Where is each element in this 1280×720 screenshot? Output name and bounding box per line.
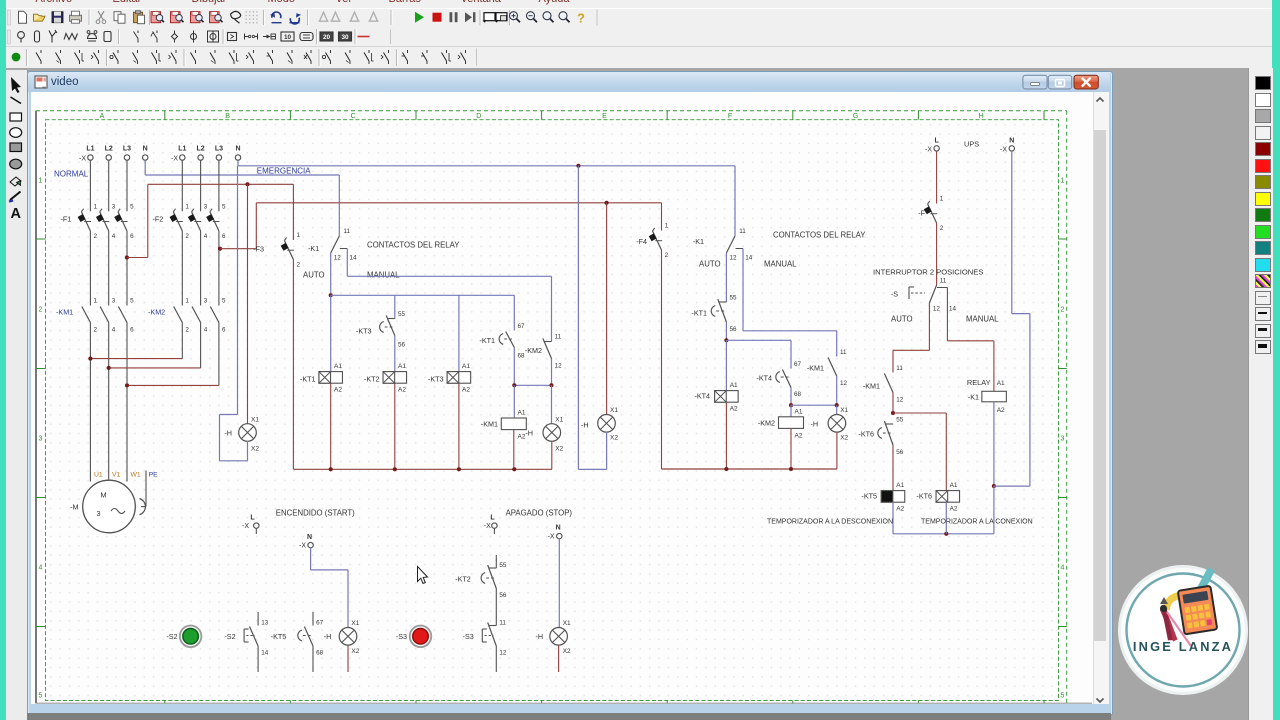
label -KM1 bbox=[56, 308, 73, 317]
junction mid rail KT4 bbox=[724, 467, 728, 471]
svg-text:13: 13 bbox=[261, 620, 269, 627]
svg-text:N: N bbox=[307, 534, 312, 541]
junction node F bbox=[992, 484, 996, 488]
svg-text:11: 11 bbox=[344, 228, 351, 235]
contactor -KM2 pole 2 bbox=[192, 298, 208, 334]
junction rail R2 lamp feed bbox=[605, 201, 609, 205]
wire -KM2/2 drop bbox=[181, 323, 183, 359]
wire lamp X2 to bottom rail bbox=[551, 441, 553, 470]
wire L1 normal to -F1 bbox=[89, 160, 91, 211]
svg-text:-K1: -K1 bbox=[308, 244, 319, 253]
wire -F1 to -KM1 at x=90.4 bbox=[89, 231, 91, 306]
terminal -X N (start) bbox=[299, 534, 313, 549]
breaker contact -F (UPS) bbox=[924, 196, 944, 233]
timer contact -KT6 (NC, 55-56) bbox=[878, 417, 904, 457]
wire -KM1 ups to node E bbox=[892, 393, 894, 414]
timer contact -KT3 (NC, 55-56) bbox=[380, 311, 406, 349]
svg-text:-KT6: -KT6 bbox=[916, 492, 932, 501]
svg-text:X1: X1 bbox=[251, 416, 259, 423]
wire node C to -KT4 contact bbox=[726, 340, 791, 368]
label -KT3 (contact) bbox=[356, 327, 372, 336]
breaker -F2 pole 3 bbox=[206, 204, 226, 241]
wire link L2 km1-km2 bbox=[109, 367, 201, 369]
label AUTO (left) bbox=[303, 271, 325, 280]
svg-text:?: ? bbox=[577, 11, 585, 26]
junction bottom rail KT2 bbox=[393, 467, 397, 471]
relay coil -K1 bbox=[968, 380, 1007, 414]
wire manual branch (left) bbox=[347, 249, 551, 342]
wire -F3/2 to bottom rail bbox=[292, 260, 294, 470]
svg-text:1: 1 bbox=[39, 178, 43, 185]
svg-text:A2: A2 bbox=[462, 387, 470, 394]
svg-text:-KT4: -KT4 bbox=[694, 392, 710, 401]
aux contact -KM2 (NC, 11-12) bbox=[543, 334, 562, 370]
label -KM2 bbox=[148, 308, 165, 317]
svg-text:-KT2: -KT2 bbox=[455, 575, 471, 584]
wire -KM1/6 to motor W1 bbox=[126, 323, 128, 482]
wire relay A2 to node F bbox=[993, 402, 995, 486]
wire -KM1 coil A2 to rail bbox=[513, 430, 515, 470]
grid dots bbox=[46, 120, 1058, 700]
svg-text:X2: X2 bbox=[610, 435, 618, 442]
wire lamp -H2 return bbox=[578, 166, 606, 470]
wire node A to -KM1 coil bbox=[513, 385, 515, 418]
svg-text:2: 2 bbox=[185, 327, 189, 334]
label -KT2 (contact) bbox=[455, 575, 471, 584]
pushbutton indicator -S2 (green) bbox=[180, 626, 202, 648]
wire -F2/6 to -KM2 with tap bbox=[218, 231, 220, 306]
svg-text:11: 11 bbox=[555, 334, 562, 341]
svg-text:3: 3 bbox=[112, 298, 116, 305]
timer contact -KT5 (NO, 67-68) bbox=[298, 612, 324, 672]
wire auto rail to -KT3 contact bbox=[394, 295, 396, 318]
junction mid rail KM2 bbox=[789, 467, 793, 471]
wire -F4/2 to mid rail bbox=[661, 250, 663, 469]
wire -KT4 coil A2 to mid rail bbox=[725, 402, 727, 469]
timer contact -KT1 (NO, 67-68) bbox=[499, 323, 525, 360]
svg-text:11: 11 bbox=[739, 228, 746, 235]
svg-text:-X: -X bbox=[1000, 147, 1007, 154]
wire -KT3/56 to -KT2 coil bbox=[394, 336, 396, 372]
svg-text:3: 3 bbox=[97, 509, 101, 518]
svg-text:2: 2 bbox=[185, 233, 189, 240]
svg-text:4: 4 bbox=[204, 327, 208, 334]
wire node D2 to lamp -H4 bbox=[836, 405, 838, 414]
wire L3 normal to -F1 bbox=[126, 160, 128, 211]
wire -F2/2 to -KM2 bbox=[181, 231, 183, 306]
svg-text:-H: -H bbox=[811, 420, 819, 429]
svg-text:4: 4 bbox=[112, 327, 116, 334]
svg-text:68: 68 bbox=[316, 650, 324, 657]
label -F3 bbox=[253, 245, 264, 254]
pushbutton contact -S2 (NO, 13-14) bbox=[244, 612, 269, 672]
svg-text:5: 5 bbox=[130, 204, 134, 211]
wire bottom rail (left section) bbox=[293, 468, 552, 470]
svg-text:14: 14 bbox=[949, 306, 957, 313]
svg-text:-S2: -S2 bbox=[224, 632, 235, 641]
svg-text:L2: L2 bbox=[197, 146, 205, 153]
svg-text:4: 4 bbox=[112, 233, 116, 240]
svg-text:L1: L1 bbox=[86, 146, 94, 153]
svg-text:ENCENDIDO (START): ENCENDIDO (START) bbox=[276, 509, 355, 518]
svg-text:-S3: -S3 bbox=[463, 632, 474, 641]
wire N stop to lamp bbox=[558, 539, 560, 628]
svg-text:5: 5 bbox=[222, 204, 226, 211]
svg-text:-X: -X bbox=[242, 523, 249, 530]
wire L3 emergencia to -F2 bbox=[218, 160, 220, 211]
INGE LANZA logo watermark bbox=[1118, 565, 1248, 695]
timer coil -KT4 bbox=[694, 382, 738, 413]
svg-text:5: 5 bbox=[130, 298, 134, 305]
label -S2 (contact) bbox=[224, 632, 235, 641]
svg-text:-X: -X bbox=[171, 155, 178, 162]
svg-text:12: 12 bbox=[840, 380, 848, 387]
wire L1 emergencia to -F2 bbox=[181, 160, 183, 211]
contactor -KM1 pole 3 bbox=[118, 298, 134, 334]
svg-text:3: 3 bbox=[204, 204, 208, 211]
svg-text:A2: A2 bbox=[896, 506, 904, 513]
wire N normal rail bbox=[145, 160, 339, 175]
wire -KM2/4 drop bbox=[200, 323, 202, 368]
svg-text:3: 3 bbox=[1061, 436, 1065, 443]
junction node A bbox=[512, 383, 516, 387]
svg-text:UPS: UPS bbox=[964, 140, 979, 149]
wire -KT1b/56 to node C bbox=[725, 322, 727, 340]
wire auto rail (left section) bbox=[331, 294, 515, 296]
wire L2 emergencia to -F2 bbox=[200, 160, 202, 211]
label -KM2 (aux) bbox=[525, 346, 542, 355]
contactor -KM1 pole 2 bbox=[100, 298, 116, 334]
contactor -KM1 pole 1 bbox=[82, 298, 98, 334]
svg-text:CONTACTOS DEL RELAY: CONTACTOS DEL RELAY bbox=[367, 241, 460, 250]
svg-text:A1: A1 bbox=[997, 380, 1005, 387]
timer coil -KT6 bbox=[916, 482, 959, 513]
svg-text:-KT3: -KT3 bbox=[356, 327, 372, 336]
svg-text:MANUAL: MANUAL bbox=[367, 271, 400, 280]
left tool palette bbox=[6, 70, 28, 720]
svg-text:3: 3 bbox=[112, 204, 116, 211]
svg-text:INTERRUPTOR 2 POSICIONES: INTERRUPTOR 2 POSICIONES bbox=[873, 268, 983, 277]
label CONTACTOS DEL RELAY (right) bbox=[773, 231, 866, 240]
svg-text:67: 67 bbox=[518, 323, 526, 330]
label MANUAL (right-mid) bbox=[764, 260, 797, 269]
wire -KT3 coil A2 to rail bbox=[458, 383, 460, 469]
svg-text:A2: A2 bbox=[950, 506, 958, 513]
label -KT1 (contact) bbox=[479, 336, 495, 345]
svg-text:-KM1: -KM1 bbox=[863, 382, 880, 391]
label CONTACTOS DEL RELAY (left) bbox=[367, 241, 460, 250]
lamp -H (km section) bbox=[811, 407, 849, 442]
wire rail R2 to -F4 bbox=[661, 203, 663, 231]
menu bar bbox=[6, 0, 1273, 8]
wire -K1b/12 to -KT1b bbox=[725, 253, 727, 302]
wire rail R1 (normal phase) bbox=[148, 183, 294, 185]
svg-text:-F2: -F2 bbox=[153, 215, 164, 224]
selector switch -S (2 position) bbox=[891, 278, 957, 313]
svg-text:2: 2 bbox=[297, 262, 301, 269]
svg-text:X2: X2 bbox=[251, 445, 259, 452]
svg-text:12: 12 bbox=[933, 306, 941, 313]
breaker contact -F4 bbox=[649, 223, 669, 260]
wire node C to -KT4 coil bbox=[725, 340, 727, 390]
wire -KM2 coil A2 to mid rail bbox=[790, 428, 792, 469]
svg-text:4: 4 bbox=[39, 565, 43, 572]
wire rail R1 to lamp -H1 bbox=[247, 184, 249, 424]
svg-text:L2: L2 bbox=[105, 146, 113, 153]
svg-text:10: 10 bbox=[284, 34, 292, 41]
wire rail R1 to -F3 bbox=[292, 184, 294, 240]
svg-text:1: 1 bbox=[94, 204, 98, 211]
label -F2 bbox=[153, 215, 164, 224]
wire -F2/4 to -KM2 bbox=[200, 231, 202, 306]
svg-text:X1: X1 bbox=[563, 620, 571, 627]
wire auto rail to -KT1 contact bbox=[513, 295, 515, 330]
wire -KM1 aux to node D bbox=[836, 376, 838, 405]
svg-text:5: 5 bbox=[39, 693, 43, 700]
svg-text:1: 1 bbox=[185, 298, 189, 305]
svg-text:4: 4 bbox=[1061, 565, 1065, 572]
junction node C bbox=[724, 338, 728, 342]
svg-text:6: 6 bbox=[222, 233, 226, 240]
svg-text:1: 1 bbox=[1061, 178, 1065, 185]
svg-text:12: 12 bbox=[896, 397, 904, 404]
label ENCENDIDO (START) bbox=[276, 509, 355, 518]
svg-text:-H: -H bbox=[324, 632, 332, 641]
wire -KM1/4 to motor V1 bbox=[108, 323, 110, 481]
wire tap -F1/6 to rail R1 bbox=[127, 184, 148, 257]
svg-text:4: 4 bbox=[204, 233, 208, 240]
lamp -H (stop) bbox=[536, 620, 572, 655]
svg-text:N: N bbox=[143, 146, 148, 153]
svg-text:A: A bbox=[100, 113, 105, 120]
svg-text:NORMAL: NORMAL bbox=[54, 170, 89, 179]
svg-text:14: 14 bbox=[261, 650, 269, 657]
wire -KM2/6 drop bbox=[218, 323, 220, 386]
svg-text:6: 6 bbox=[130, 327, 134, 334]
svg-text:-KT2: -KT2 bbox=[364, 375, 380, 384]
breaker contact -F3 bbox=[281, 232, 301, 269]
breaker -F1 pole 2 bbox=[96, 204, 116, 241]
changeover contact -K1 (right) bbox=[726, 228, 752, 262]
svg-text:12: 12 bbox=[499, 650, 507, 657]
label -S3 (contact) bbox=[463, 632, 474, 641]
label -KM1 (aux mid) bbox=[807, 364, 824, 373]
wire -KM1/2 to motor U1 bbox=[89, 323, 91, 482]
wire -KT6 coil A2 drop bbox=[945, 502, 947, 534]
junction auto rail left bbox=[329, 293, 333, 297]
label -KT4 (contact) bbox=[756, 374, 772, 383]
svg-text:-KM1: -KM1 bbox=[56, 308, 73, 317]
svg-text:A1: A1 bbox=[334, 363, 342, 370]
wire -KT2 to -S3 bbox=[495, 589, 497, 626]
svg-text:L3: L3 bbox=[215, 146, 223, 153]
wire UPS L to -F bbox=[936, 151, 938, 203]
svg-text:A1: A1 bbox=[795, 408, 803, 415]
svg-text:X2: X2 bbox=[840, 435, 848, 442]
terminal -X N (stop) bbox=[548, 525, 562, 541]
svg-text:-KT5: -KT5 bbox=[861, 492, 877, 501]
mouse cursor bbox=[418, 567, 428, 584]
wire -F1 to -KM1 at x=127 bbox=[126, 231, 128, 306]
svg-text:L: L bbox=[934, 137, 939, 144]
wire -S/12 auto path bbox=[893, 303, 929, 373]
svg-text:L3: L3 bbox=[123, 146, 131, 153]
svg-text:U1: U1 bbox=[94, 472, 103, 479]
svg-text:-KM2: -KM2 bbox=[758, 419, 775, 428]
svg-text:A: A bbox=[10, 206, 21, 222]
svg-text:-KM2: -KM2 bbox=[525, 346, 542, 355]
timer coil -KM2 feed bbox=[790, 405, 792, 417]
svg-text:55: 55 bbox=[730, 295, 738, 302]
wire lamp -H1 return bbox=[220, 166, 248, 461]
timer coil -KT2 bbox=[364, 363, 407, 394]
svg-text:-K1: -K1 bbox=[968, 392, 979, 401]
wire stub L start bbox=[255, 528, 257, 534]
svg-text:1: 1 bbox=[185, 204, 189, 211]
svg-text:X1: X1 bbox=[555, 416, 563, 423]
page frame bbox=[36, 111, 1092, 704]
svg-text:A1: A1 bbox=[518, 410, 526, 417]
junction link L3 bbox=[125, 383, 129, 387]
breaker -F2 pole 2 bbox=[188, 204, 208, 241]
svg-text:D: D bbox=[476, 113, 481, 120]
svg-text:-H: -H bbox=[581, 421, 589, 430]
svg-text:-S2: -S2 bbox=[166, 632, 177, 641]
vertical scrollbar bbox=[1093, 92, 1109, 704]
junction link L1 bbox=[88, 357, 92, 361]
wire -KT1/68 to node bbox=[513, 348, 515, 386]
wire stub L stop bbox=[493, 528, 495, 534]
wire -KM2/12 to node bbox=[551, 359, 553, 386]
svg-text:A2: A2 bbox=[795, 433, 803, 440]
svg-text:1: 1 bbox=[665, 223, 669, 230]
label RELAY bbox=[967, 378, 991, 387]
label -S2 (button) bbox=[166, 632, 177, 641]
wire node D link bbox=[791, 404, 837, 406]
terminal -X L (UPS) bbox=[925, 137, 939, 153]
svg-text:-KT6: -KT6 bbox=[858, 430, 874, 439]
svg-text:-S3: -S3 bbox=[396, 632, 407, 641]
svg-text:C: C bbox=[351, 113, 356, 120]
svg-text:X2: X2 bbox=[351, 648, 359, 655]
svg-text:2: 2 bbox=[39, 307, 43, 314]
wire lamp stop X2 bbox=[558, 645, 560, 672]
bottom strip bbox=[27, 713, 1111, 720]
svg-text:-X: -X bbox=[925, 147, 932, 154]
wire -KT2 coil A2 to rail bbox=[394, 383, 396, 469]
svg-text:-X: -X bbox=[548, 533, 555, 540]
svg-text:-F3: -F3 bbox=[253, 245, 264, 254]
junction -F1/6 tap bbox=[125, 255, 129, 259]
svg-text:A2: A2 bbox=[334, 387, 342, 394]
junction emergencia rail to lamp return bbox=[576, 164, 580, 168]
pushbutton contact -S3 (NC, 11-12) bbox=[482, 620, 507, 673]
breaker -F1 pole 3 bbox=[114, 204, 134, 241]
wire node F to coils return bbox=[893, 486, 994, 534]
terminal strip -X NORMAL (L1 L2 L3 N) bbox=[79, 146, 148, 163]
svg-text:INGE LANZA: INGE LANZA bbox=[1133, 639, 1233, 654]
wire mid bottom rail bbox=[662, 468, 837, 470]
svg-text:-X: -X bbox=[484, 523, 491, 530]
svg-text:MANUAL: MANUAL bbox=[966, 315, 999, 324]
svg-text:X1: X1 bbox=[351, 620, 359, 627]
contactor coil -KM1 bbox=[481, 410, 526, 441]
svg-text:X1: X1 bbox=[840, 407, 848, 414]
toolbar row 3 bbox=[6, 47, 1273, 69]
svg-text:A1: A1 bbox=[398, 363, 406, 370]
wire tap -F2/6 to rail R2 bbox=[220, 203, 256, 249]
svg-text:12: 12 bbox=[334, 255, 342, 262]
junction node E bbox=[891, 411, 895, 415]
terminal -X L (start) bbox=[242, 515, 259, 530]
svg-text:-H: -H bbox=[224, 429, 232, 438]
svg-text:-S: -S bbox=[891, 290, 898, 299]
wire lamp -H4 to mid rail bbox=[836, 432, 838, 469]
svg-text:A2: A2 bbox=[997, 407, 1005, 414]
svg-text:56: 56 bbox=[398, 342, 406, 349]
svg-text:AUTO: AUTO bbox=[303, 271, 325, 280]
label -KM1 (ups aux) bbox=[863, 382, 880, 391]
svg-text:-H: -H bbox=[536, 632, 544, 641]
svg-text:1: 1 bbox=[940, 196, 944, 203]
timer coil -KT1 bbox=[300, 363, 343, 394]
timer coil -KT5 (filled) bbox=[861, 482, 904, 513]
junction rail R1 lamp feed bbox=[245, 182, 249, 186]
wire auto rail to -KT3 coil bbox=[458, 295, 460, 371]
svg-text:2: 2 bbox=[665, 252, 669, 259]
svg-text:A2: A2 bbox=[730, 406, 738, 413]
timer contact -KT4 (NO, 67-68) bbox=[776, 361, 802, 398]
wire link L3 km1-km2 bbox=[127, 384, 219, 386]
label INTERRUPTOR 2 POSICIONES bbox=[873, 268, 983, 277]
svg-text:6: 6 bbox=[130, 233, 134, 240]
svg-text:30: 30 bbox=[341, 34, 349, 41]
contactor coil -KM2 bbox=[758, 408, 804, 439]
label -KT1 (right contact) bbox=[691, 309, 707, 318]
wire manual branch (right-mid) bbox=[743, 249, 837, 357]
terminal -X N (UPS) bbox=[1000, 137, 1015, 153]
wire -KT1 coil A2 to rail bbox=[330, 383, 332, 469]
svg-text:-KT5: -KT5 bbox=[271, 632, 287, 641]
svg-text:RELAY: RELAY bbox=[967, 378, 991, 387]
wire emergencia rail to -K1b bbox=[734, 166, 736, 236]
svg-text:APAGADO (STOP): APAGADO (STOP) bbox=[506, 509, 573, 518]
label MANUAL (left) bbox=[367, 271, 400, 280]
svg-text:-KT3: -KT3 bbox=[428, 375, 444, 384]
junction node B bbox=[549, 383, 553, 387]
title bar bbox=[28, 72, 1110, 92]
svg-text:3: 3 bbox=[204, 298, 208, 305]
svg-text:-KM2: -KM2 bbox=[148, 308, 165, 317]
svg-text:M: M bbox=[100, 491, 106, 500]
svg-text:2: 2 bbox=[94, 327, 98, 334]
label -S3 (button) bbox=[396, 632, 407, 641]
canvas bbox=[31, 92, 1093, 704]
label NORMAL bbox=[54, 170, 89, 179]
lamp -H (contactor section) bbox=[525, 416, 563, 452]
wire rail R2 (emergencia phase) bbox=[256, 202, 661, 204]
junction -KT6 coil return bbox=[944, 532, 948, 536]
svg-text:N: N bbox=[235, 146, 240, 153]
svg-text:12: 12 bbox=[730, 255, 738, 262]
aux contact -KM1 (NO, 11-12, mid) bbox=[828, 349, 847, 387]
svg-text:11: 11 bbox=[840, 349, 847, 356]
svg-text:55: 55 bbox=[398, 311, 406, 318]
breaker -F1 pole 1 bbox=[78, 204, 98, 241]
svg-text:A1: A1 bbox=[950, 482, 958, 489]
wire N emergencia rail bbox=[238, 160, 735, 165]
svg-text:3: 3 bbox=[39, 436, 43, 443]
